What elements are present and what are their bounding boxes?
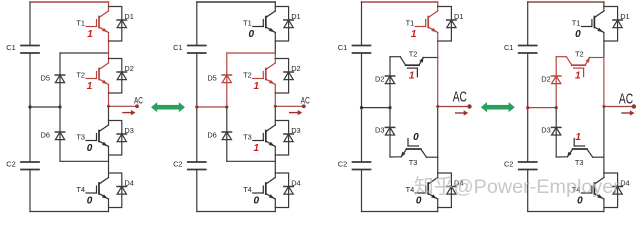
svg-text:T4: T4 <box>76 185 85 194</box>
wire leg top (panel 4) <box>603 2 605 11</box>
svg-text:T1: T1 <box>243 19 252 28</box>
diode D5 (panel 2) <box>222 75 231 83</box>
diode D3 (panel 2) <box>284 134 293 142</box>
wire leg T1-AC (panel 3) <box>437 33 439 107</box>
capacitor C2 (panel 4) <box>519 162 537 170</box>
diode D6 (panel 1) <box>55 132 64 140</box>
svg-text:D3: D3 <box>541 126 550 135</box>
svg-text:D1: D1 <box>124 12 133 21</box>
wire leg T2-AC (panel 4) <box>603 58 605 107</box>
svg-text:D3: D3 <box>291 126 300 135</box>
diode D4 (panel 3) <box>447 187 456 195</box>
wire leg T3-T4 (panel 4) <box>603 157 605 177</box>
svg-text:T2: T2 <box>76 71 85 80</box>
wire clamp column lower (panel 4) <box>555 108 557 157</box>
svg-text:C1: C1 <box>173 43 182 52</box>
wire leg bottom (panel 4) <box>603 199 605 212</box>
wire clamp column upper (panel 3) <box>389 57 391 108</box>
transistor T3 (panel 3) <box>401 139 427 158</box>
svg-text:1: 1 <box>254 81 260 92</box>
wire clamp chain upper (panel 1) <box>59 53 61 107</box>
wire leg bottom (panel 3) <box>437 199 439 212</box>
wire top DC rail (panel 2) <box>197 1 275 3</box>
svg-text:D4: D4 <box>620 179 629 188</box>
diode D3 (panel 1) <box>117 134 126 142</box>
svg-text:D2: D2 <box>375 74 384 83</box>
wire bottom DC rail (panel 1) <box>30 211 109 213</box>
svg-text:C1: C1 <box>6 43 15 52</box>
wire neutral point (panel 2) <box>197 106 227 108</box>
diode D2 (panel 2) <box>284 72 293 80</box>
wire leg AC-T3 (panel 2) <box>274 106 276 125</box>
wire leg AC-T3 (panel 3) <box>437 107 439 158</box>
wire clamp column lower (panel 3) <box>389 108 391 157</box>
diode D2 (panel 4) <box>552 76 561 84</box>
capacitor C1 (panel 2) <box>188 46 206 54</box>
wire T3 emitter to D3 (panel 4) <box>556 156 567 158</box>
wire T3 emitter to D3 (panel 3) <box>390 156 401 158</box>
svg-text:D3: D3 <box>124 126 133 135</box>
svg-text:0: 0 <box>87 196 93 207</box>
svg-text:D6: D6 <box>41 131 50 140</box>
capacitor C1 (panel 3) <box>353 46 371 54</box>
transistor T1 (panel 1) <box>86 11 109 33</box>
transistor T2 (panel 1) <box>86 63 109 85</box>
svg-text:T3: T3 <box>575 158 584 167</box>
svg-text:T4: T4 <box>406 185 415 194</box>
wire leg top (panel 3) <box>437 2 439 11</box>
wire D2 branch (panel 2) <box>275 59 288 94</box>
svg-text:AC: AC <box>453 89 467 106</box>
green state-transition arrow 3-4 <box>481 102 515 112</box>
transistor T2 (panel 3) <box>400 57 424 77</box>
svg-text:1: 1 <box>411 29 417 40</box>
svg-text:D1: D1 <box>454 12 463 21</box>
wire leg top (panel 2) <box>274 2 276 11</box>
wire leg T2-AC (panel 1) <box>108 85 110 107</box>
diode D1 (panel 1) <box>117 20 126 28</box>
transistor T3 (panel 4) <box>567 139 593 158</box>
node neutral-right (panel 4) <box>555 106 558 109</box>
svg-text:1: 1 <box>87 81 93 92</box>
wire clamp chain lower (panel 1) <box>59 107 61 161</box>
wire D3 branch (panel 1) <box>109 121 122 156</box>
wire DC bus (panel 1) <box>29 2 31 46</box>
node neutral-left (panel 2) <box>195 105 198 108</box>
wire DC bus (panel 2) <box>196 2 198 46</box>
wire leg AC-T3 (panel 1) <box>108 106 110 125</box>
diode D1 (panel 4) <box>613 20 622 28</box>
wire leg T1-T2 (panel 4) <box>603 33 605 58</box>
svg-text:1: 1 <box>254 143 260 154</box>
svg-text:C2: C2 <box>338 160 347 169</box>
capacitor C2 (panel 3) <box>353 162 371 170</box>
diode D4 (panel 4) <box>613 187 622 195</box>
svg-text:D4: D4 <box>291 179 300 188</box>
node AC terminal (panel 3) <box>467 104 471 108</box>
wire T1-T2 junction (panel 1) <box>60 52 109 54</box>
wire T2 emitter to leg (panel 4) <box>589 57 604 59</box>
wire leg T2-AC (panel 2) <box>274 85 276 107</box>
svg-text:T1: T1 <box>76 19 85 28</box>
wire AC output (panel 2) <box>275 105 304 107</box>
wire top DC rail (panel 1) <box>30 1 109 3</box>
node AC tap (panel 2) <box>274 105 277 108</box>
svg-text:D5: D5 <box>41 74 50 83</box>
svg-text:0: 0 <box>249 29 255 40</box>
svg-text:D1: D1 <box>291 12 300 21</box>
svg-text:0: 0 <box>575 29 581 40</box>
wire DC bus (panel 3) <box>361 2 363 46</box>
transistor T3 (panel 2) <box>253 125 275 147</box>
wire leg T1-T2 (panel 2) <box>274 33 276 54</box>
wire D1 branch (panel 4) <box>604 7 618 42</box>
wire D4 branch (panel 2) <box>275 173 288 208</box>
current direction arrow (panel 4) <box>622 110 635 115</box>
wire leg T1-T2 (panel 1) <box>108 33 110 64</box>
svg-text:AC: AC <box>619 91 633 108</box>
node neutral-left (panel 1) <box>28 105 31 108</box>
transistor T4 (panel 3) <box>415 178 438 200</box>
svg-text:T1: T1 <box>572 19 581 28</box>
diode D2 (panel 3) <box>385 76 394 84</box>
node neutral-left (panel 4) <box>526 106 529 109</box>
svg-text:D6: D6 <box>207 131 216 140</box>
wire neutral point (panel 1) <box>30 106 60 108</box>
wire DC bus (panel 4) <box>527 2 529 46</box>
svg-text:C2: C2 <box>504 160 513 169</box>
wire T3-T4 junction (panel 2) <box>227 160 275 162</box>
svg-text:0: 0 <box>254 196 260 207</box>
wire D1 branch (panel 1) <box>109 7 122 42</box>
svg-text:D1: D1 <box>620 12 629 21</box>
wire leg T3-T4 (panel 2) <box>274 147 276 178</box>
svg-text:AC: AC <box>134 96 143 106</box>
wire T3 collector to leg (panel 3) <box>427 156 438 158</box>
capacitor C2 (panel 1) <box>21 162 39 170</box>
wire D4 branch (panel 3) <box>438 173 452 208</box>
svg-text:D5: D5 <box>207 74 216 83</box>
wire neutral point (panel 4) <box>528 107 557 109</box>
wire bottom DC rail (panel 4) <box>528 211 604 213</box>
svg-text:C2: C2 <box>173 160 182 169</box>
transistor T1 (panel 4) <box>581 11 604 33</box>
svg-text:T3: T3 <box>76 133 85 142</box>
wire leg AC-T3 (panel 4) <box>603 107 605 158</box>
wire leg T3-T4 (panel 3) <box>437 157 439 177</box>
wire D1 branch (panel 3) <box>438 7 452 42</box>
svg-text:1: 1 <box>87 29 93 40</box>
wire T3 collector to leg (panel 4) <box>593 156 604 158</box>
wire D3 branch (panel 2) <box>275 121 288 156</box>
svg-text:D2: D2 <box>124 64 133 73</box>
svg-text:C2: C2 <box>6 160 15 169</box>
transistor T2 (panel 4) <box>566 57 590 77</box>
wire AC output (panel 4) <box>604 106 634 108</box>
svg-text:D2: D2 <box>291 64 300 73</box>
node AC terminal (panel 1) <box>135 104 139 108</box>
wire D4 branch (panel 4) <box>604 173 618 208</box>
svg-text:C1: C1 <box>338 43 347 52</box>
wire D1 branch (panel 2) <box>275 7 288 42</box>
wire bottom DC rail (panel 3) <box>362 211 438 213</box>
svg-text:T2: T2 <box>575 50 584 59</box>
diode D3 (panel 3) <box>385 127 394 135</box>
wire clamp chain upper (panel 2) <box>226 53 228 107</box>
node AC tap (panel 4) <box>602 105 605 108</box>
current direction arrow (panel 2) <box>290 110 303 115</box>
green state-transition arrow 1-2 <box>151 102 185 112</box>
wire leg bottom (panel 2) <box>274 199 276 212</box>
svg-text:C1: C1 <box>504 43 513 52</box>
svg-text:AC: AC <box>301 96 310 106</box>
svg-text:知乎@Power-Employer: 知乎@Power-Employer <box>414 176 620 198</box>
diode D3 (panel 4) <box>552 127 561 135</box>
diode D6 (panel 2) <box>222 132 231 140</box>
transistor T4 (panel 1) <box>86 178 109 200</box>
wire T2 emitter to leg (panel 3) <box>423 57 438 59</box>
capacitor C2 (panel 2) <box>188 162 206 170</box>
wire T1-T2 junction (panel 2) <box>227 52 275 54</box>
svg-text:T2: T2 <box>409 50 418 59</box>
wire neutral point (panel 3) <box>362 107 391 109</box>
transistor T2 (panel 2) <box>253 63 275 85</box>
wire T3-T4 junction (panel 1) <box>60 160 109 162</box>
svg-text:T2: T2 <box>243 71 252 80</box>
wire leg bottom (panel 1) <box>108 199 110 212</box>
svg-text:1: 1 <box>575 132 581 143</box>
svg-text:T1: T1 <box>406 19 415 28</box>
wire D4 branch (panel 1) <box>109 173 122 208</box>
wire top DC rail (panel 4) <box>528 1 604 3</box>
transistor T4 (panel 4) <box>581 178 604 200</box>
svg-text:1: 1 <box>409 71 415 82</box>
svg-text:D2: D2 <box>541 74 550 83</box>
node AC tap (panel 3) <box>436 105 439 108</box>
diode D4 (panel 1) <box>117 187 126 195</box>
diode D5 (panel 1) <box>55 75 64 83</box>
node AC tap (panel 1) <box>107 105 110 108</box>
wire leg top (panel 1) <box>108 2 110 11</box>
node neutral-right (panel 3) <box>388 106 391 109</box>
current direction arrow (panel 1) <box>123 110 136 115</box>
wire bottom DC rail (panel 2) <box>197 211 275 213</box>
wire AC output (panel 3) <box>438 106 470 108</box>
diode D2 (panel 1) <box>117 72 126 80</box>
diode D4 (panel 2) <box>284 187 293 195</box>
svg-text:T3: T3 <box>243 133 252 142</box>
transistor T1 (panel 3) <box>415 11 438 33</box>
capacitor C1 (panel 1) <box>21 46 39 54</box>
wire clamp column upper (panel 4) <box>555 57 557 108</box>
node neutral-left (panel 3) <box>360 106 363 109</box>
wire D2 branch (panel 1) <box>109 59 122 94</box>
current direction arrow (panel 3) <box>456 110 469 115</box>
node AC terminal (panel 2) <box>302 104 306 108</box>
svg-text:D3: D3 <box>375 126 384 135</box>
wire T2 collector to D2 (panel 3) <box>390 56 400 58</box>
svg-text:1: 1 <box>575 71 581 82</box>
svg-text:0: 0 <box>87 143 93 154</box>
transistor T3 (panel 1) <box>86 125 109 147</box>
wire leg T3-T4 (panel 1) <box>108 147 110 178</box>
node neutral-right (panel 1) <box>58 105 61 108</box>
transistor T1 (panel 2) <box>253 11 275 33</box>
svg-text:0: 0 <box>413 132 419 143</box>
svg-text:T3: T3 <box>409 158 418 167</box>
wire top DC rail (panel 3) <box>362 1 438 3</box>
node AC terminal (panel 4) <box>632 104 636 108</box>
capacitor C1 (panel 4) <box>519 46 537 54</box>
transistor T4 (panel 2) <box>253 178 275 200</box>
diode D1 (panel 2) <box>284 20 293 28</box>
wire T2 collector to D2 (panel 4) <box>556 56 566 58</box>
wire clamp chain lower (panel 2) <box>226 107 228 161</box>
svg-text:D4: D4 <box>124 179 133 188</box>
wire AC output (panel 1) <box>109 105 138 107</box>
node neutral-right (panel 2) <box>225 105 228 108</box>
diode D1 (panel 3) <box>447 20 456 28</box>
svg-text:T4: T4 <box>243 185 252 194</box>
